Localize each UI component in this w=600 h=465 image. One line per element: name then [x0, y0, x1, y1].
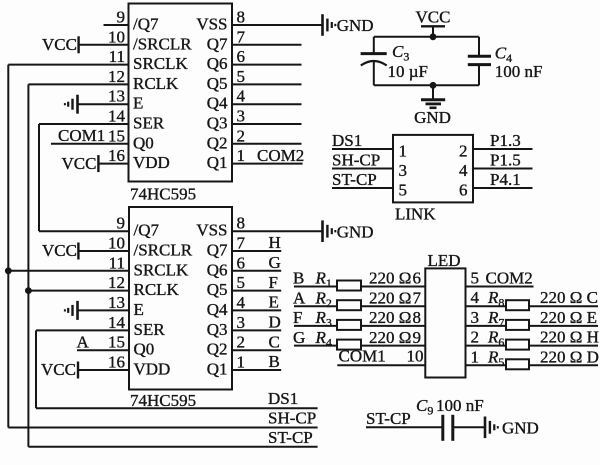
svg-text:16: 16 [108, 353, 125, 372]
svg-text:R5: R5 [487, 347, 504, 369]
U1 pin 4 Q4 wire [232, 103, 302, 105]
svg-text:Q5: Q5 [207, 280, 228, 299]
U2 pin 2 label Q2 [207, 340, 228, 359]
ground symbol GND (C9) [485, 417, 539, 439]
U1 pin 9 number [117, 8, 126, 27]
svg-text:COM2: COM2 [257, 146, 304, 165]
R2 value 220 ohm [369, 288, 411, 307]
svg-text:10: 10 [407, 346, 424, 365]
wire SH-CP vertical (U1.11/U2.11 to bottom) [7, 65, 9, 428]
U2 pin 4 Q4 wire [232, 309, 281, 311]
R4 value 220 ohm [369, 328, 411, 347]
U2 pin 4 number [237, 293, 246, 312]
ground symbol GND at U1 pin 8 VSS [323, 14, 374, 36]
U1 pin 4 label Q4 [207, 94, 228, 113]
svg-text:VCC: VCC [42, 241, 77, 260]
wire LED left pin 6 (B) [294, 286, 425, 288]
U2 pin 1 label Q1 [207, 360, 228, 379]
svg-text:GND: GND [502, 418, 539, 437]
svg-text:220 Ω: 220 Ω [369, 288, 411, 307]
LINK pin 1 wire (DS1) [332, 148, 393, 150]
LINK pin number 2 [459, 142, 468, 161]
U2 pin 16 number [108, 353, 125, 372]
ground symbol GND (earth, below caps) [414, 85, 451, 127]
LED part label [428, 251, 461, 270]
svg-text:1: 1 [237, 146, 246, 165]
U1 pin 11 number [109, 47, 125, 66]
svg-text:2: 2 [237, 126, 246, 145]
svg-text:2: 2 [459, 142, 468, 161]
LED pin number 4 [471, 288, 480, 307]
resistor R2 body [337, 300, 361, 310]
svg-text:1: 1 [237, 353, 246, 372]
svg-text:220 Ω C: 220 Ω C [540, 288, 598, 307]
svg-text:G: G [269, 253, 281, 272]
svg-text:4: 4 [459, 161, 468, 180]
svg-text:SER: SER [133, 114, 165, 133]
svg-text:11: 11 [109, 253, 125, 272]
wire LED left pin 7 (A) [294, 305, 425, 307]
svg-text:RCLK: RCLK [133, 74, 179, 93]
net label B [293, 269, 304, 288]
U1 pin 12 label RCLK [133, 74, 179, 93]
svg-text:74HC595: 74HC595 [130, 185, 196, 204]
net label F at U2 pin 5 [269, 273, 278, 292]
svg-text:Q0: Q0 [134, 340, 155, 359]
wire LED left pin 9 (G) [294, 345, 425, 347]
U1 pin 10 label /SRCLR [133, 34, 192, 53]
LINK pin 4 wire (P1.5) [473, 168, 533, 170]
wire LED left pin 8 (F) [294, 325, 425, 327]
U1 pin 13 label E [133, 94, 143, 113]
svg-text:12: 12 [108, 273, 125, 292]
U1 pin 8 number [237, 8, 246, 27]
IC U1 74HC595 body [129, 4, 233, 182]
svg-text:ST-CP: ST-CP [332, 170, 377, 189]
U1 pin 12 RCLK wire [28, 83, 128, 85]
svg-text:3: 3 [237, 107, 246, 126]
U2 pin 16 label VDD [134, 360, 171, 379]
power symbol VCC (top) [416, 8, 451, 37]
svg-text:100 nF: 100 nF [436, 396, 484, 415]
U2 pin 9 /Q7 wire [39, 230, 129, 232]
net label P1.3 [490, 131, 521, 150]
resistor R5 designator [487, 347, 504, 369]
net label COM2 (LED pin 5) [486, 269, 533, 288]
U2 VCC symbol at pin 16 [41, 360, 78, 379]
U1 pin 4 number [237, 87, 246, 106]
net label C at U2 pin 2 [269, 332, 280, 351]
junction at U2 pin 11 [5, 267, 12, 274]
U2 pin 12 RCLK wire [28, 290, 129, 292]
U2 pin 3 label Q3 [207, 320, 228, 339]
svg-text:VDD: VDD [134, 360, 171, 379]
svg-text:8: 8 [413, 308, 422, 327]
LINK pin number 5 [399, 181, 408, 200]
U1 pin 11 SRCLK wire [8, 64, 128, 66]
U2 pin 14 SER wire [36, 329, 129, 331]
svg-text:220 Ω H: 220 Ω H [540, 328, 599, 347]
svg-text:E: E [269, 293, 279, 312]
svg-text:Q7: Q7 [207, 34, 228, 53]
U2 pin 8 number [237, 214, 246, 233]
svg-text:Q1: Q1 [207, 360, 228, 379]
wire net DS1 (horizontal) [36, 407, 318, 409]
U1 pin 16 label VDD [133, 153, 170, 172]
U1 pin 1 label Q1 [207, 153, 228, 172]
svg-text:Q1: Q1 [207, 153, 228, 172]
wire ST-CP to C9 [366, 426, 442, 428]
svg-text:H: H [269, 233, 281, 252]
resistor R7 body [506, 320, 529, 330]
U1 pin 15 number [108, 126, 125, 145]
svg-text:VCC: VCC [62, 154, 97, 173]
svg-text:VCC: VCC [42, 35, 77, 54]
svg-text:P1.3: P1.3 [490, 131, 521, 150]
resistor R1 body [337, 281, 361, 291]
U1 pin 6 Q6 wire [232, 64, 302, 66]
svg-text:SRCLK: SRCLK [134, 260, 190, 279]
net label ST-CP [332, 170, 377, 189]
svg-text:A: A [77, 332, 90, 351]
net label P1.5 [490, 151, 521, 170]
wire LED pin 10 (COM1) [337, 364, 425, 366]
U2 part label 74HC595 [130, 391, 196, 410]
LED pin number 8 [413, 308, 422, 327]
svg-text:C: C [269, 332, 280, 351]
net label P4.1 [490, 170, 521, 189]
U2 pin 5 number [237, 273, 246, 292]
svg-text:Q6: Q6 [207, 54, 228, 73]
U1 pin 14 SER wire [39, 123, 129, 125]
svg-text:10 µF: 10 µF [388, 62, 429, 81]
svg-text:F: F [269, 273, 278, 292]
svg-text:DS1: DS1 [332, 131, 362, 150]
U1 pin 6 label Q6 [207, 54, 228, 73]
U1 pin 13 E wire [78, 103, 129, 105]
svg-text:1: 1 [471, 347, 480, 366]
net label COM2 at U1 pin 1 [257, 146, 304, 165]
net label E at U2 pin 4 [269, 293, 279, 312]
svg-text:B: B [269, 352, 280, 371]
svg-text:2: 2 [471, 328, 480, 347]
svg-text:10: 10 [108, 27, 125, 46]
U2 pin 13 label E [134, 300, 144, 319]
svg-text:R4: R4 [315, 328, 332, 350]
svg-text:COM1: COM1 [339, 346, 386, 365]
resistor R8 designator [487, 288, 504, 310]
svg-text:7: 7 [237, 234, 246, 253]
svg-text:220 Ω E: 220 Ω E [540, 308, 597, 327]
U1 pin 7 number [237, 27, 246, 46]
svg-text:C3: C3 [392, 42, 409, 64]
resistor R2 designator [315, 288, 332, 310]
svg-text:COM1: COM1 [58, 126, 105, 145]
net label H at U2 pin 7 [269, 233, 281, 252]
U1 pin 13 number [108, 87, 125, 106]
resistor R6 body [506, 340, 529, 350]
wire GND rail [374, 84, 479, 86]
U2 pin 10 number [108, 234, 125, 253]
U1 pin 3 number [237, 107, 246, 126]
svg-text:E: E [134, 300, 144, 319]
wire ST-CP vertical (U1.12/U2.12 to bottom) [27, 84, 29, 446]
svg-text:16: 16 [108, 146, 125, 165]
U2 pin 2 number [237, 333, 246, 352]
svg-text:Q4: Q4 [207, 300, 228, 319]
resistor R7 designator [487, 308, 504, 330]
net label SH-CP [332, 151, 380, 170]
U1 pin 2 number [237, 126, 246, 145]
LINK pin 5 wire (ST-CP) [332, 187, 393, 189]
U2 pin 7 label Q7 [207, 241, 228, 260]
svg-text:10: 10 [108, 234, 125, 253]
wire LED right pin 1 (D) [466, 364, 599, 366]
R6 value 220 ohm, net H [540, 328, 599, 347]
U2 pin 6 number [237, 253, 246, 272]
svg-text:220 Ω: 220 Ω [369, 269, 411, 288]
wire VCC rail [374, 36, 479, 38]
ground symbol at U2 pin 13 E [65, 301, 78, 320]
U2 pin 15 Q0 wire [77, 349, 129, 351]
LINK pin 2 wire (P1.3) [473, 148, 533, 150]
svg-text:/Q7: /Q7 [133, 15, 159, 34]
svg-text:4: 4 [237, 87, 246, 106]
U2 pin 7 Q7 wire [232, 250, 281, 252]
U1 pin 15 label Q0 [133, 133, 154, 152]
LINK pin 6 wire (P4.1) [473, 187, 533, 189]
U2 pin 11 SRCLK wire [8, 270, 129, 272]
net label A at U2 pin 15 [77, 332, 90, 351]
net label COM1 [339, 346, 386, 365]
wire U1 SER to U2 /Q7 vertical [38, 124, 40, 231]
U1 pin 14 number [108, 107, 126, 126]
wire C9 to ground [454, 426, 485, 428]
U2 pin 14 number [108, 313, 126, 332]
svg-text:Q2: Q2 [207, 340, 228, 359]
U1 pin 9 /Q7 wire [104, 24, 129, 26]
svg-text:P4.1: P4.1 [490, 170, 521, 189]
svg-text:Q2: Q2 [207, 133, 228, 152]
U2 pin 11 number [109, 253, 125, 272]
LINK pin number 3 [399, 161, 408, 180]
U1 pin 12 number [108, 67, 125, 86]
svg-text:LED: LED [428, 251, 461, 270]
svg-text:R3: R3 [315, 308, 332, 330]
svg-text:5: 5 [399, 181, 408, 200]
svg-text:/Q7: /Q7 [134, 221, 160, 240]
svg-text:220 Ω D: 220 Ω D [540, 347, 599, 366]
resistor R3 designator [315, 308, 332, 330]
wire LED pin 5 (COM2) [466, 286, 534, 288]
svg-text:4: 4 [471, 288, 480, 307]
svg-text:12: 12 [108, 67, 125, 86]
net label A [293, 288, 306, 307]
U2 pin 8 VSS wire [232, 230, 323, 232]
svg-text:8: 8 [237, 8, 246, 27]
svg-text:Q7: Q7 [207, 241, 228, 260]
net label B at U2 pin 1 [269, 352, 280, 371]
LED pin number 6 [413, 269, 422, 288]
net label D at U2 pin 3 [269, 313, 281, 332]
svg-text:VDD: VDD [133, 153, 170, 172]
net label ST-CP (C9 branch) [366, 409, 411, 428]
svg-text:COM2: COM2 [486, 269, 533, 288]
wire net ST-CP (horizontal) [28, 446, 317, 448]
junction VCC rail [430, 33, 437, 40]
svg-text:SH-CP: SH-CP [268, 409, 316, 428]
U2 pin 1 number [237, 353, 246, 372]
svg-text:9: 9 [413, 328, 422, 347]
svg-text:/SRCLR: /SRCLR [133, 34, 192, 53]
svg-text:B: B [293, 269, 304, 288]
svg-text:F: F [293, 308, 302, 327]
U2 pin 1 Q1 wire [232, 369, 281, 371]
svg-text:Q3: Q3 [207, 114, 228, 133]
net label ST-CP [268, 428, 313, 447]
U2 pin 13 number [108, 293, 125, 312]
svg-text:6: 6 [413, 269, 422, 288]
svg-text:VCC: VCC [416, 8, 451, 27]
resistor R4 designator [315, 328, 332, 350]
U2 pin 8 label VSS [196, 221, 227, 240]
LED pin number 2 [471, 328, 480, 347]
U1 pin 2 label Q2 [207, 133, 228, 152]
svg-text:6: 6 [459, 181, 468, 200]
svg-text:R1: R1 [315, 269, 332, 291]
LINK pin number 4 [459, 161, 468, 180]
C4 designator [495, 44, 512, 66]
R5 value 220 ohm, net D [540, 347, 599, 366]
svg-text:A: A [293, 288, 306, 307]
net label F [293, 308, 302, 327]
U2 pin 12 number [108, 273, 125, 292]
U1 pin 7 label Q7 [207, 34, 228, 53]
wire U2 SER to DS1 vertical [35, 330, 37, 408]
svg-text:3: 3 [471, 308, 480, 327]
IC U2 74HC595 body [129, 207, 232, 390]
svg-text:SRCLK: SRCLK [133, 54, 189, 73]
U2 pin 12 label RCLK [134, 280, 180, 299]
LINK part label [395, 205, 436, 224]
U1 pin 8 VSS wire [232, 24, 323, 26]
svg-text:1: 1 [399, 142, 408, 161]
net label COM1 at U1 pin 15 [58, 126, 105, 145]
U1 pin 2 Q2 wire [232, 143, 302, 145]
svg-text:RCLK: RCLK [134, 280, 180, 299]
svg-text:D: D [269, 313, 281, 332]
U2 pin 5 label Q5 [207, 280, 228, 299]
svg-text:7: 7 [413, 288, 422, 307]
capacitor C9 symbol [443, 415, 453, 441]
LED pin number 5 [471, 269, 480, 288]
ground symbol at U1 pin 13 E [65, 95, 78, 114]
C9 value 100 nF [436, 396, 484, 415]
wire LED right pin 4 (C) [466, 305, 599, 307]
U2 pin 9 label /Q7 [134, 221, 160, 240]
svg-text:74HC595: 74HC595 [130, 391, 196, 410]
svg-text:6: 6 [237, 47, 246, 66]
C9 designator [416, 396, 433, 418]
U2 pin 3 Q3 wire [232, 329, 281, 331]
capacitor C4 symbol [468, 37, 491, 86]
LED pin number 9 [413, 328, 422, 347]
connector LINK body [393, 135, 473, 203]
capacitor C3 symbol [361, 37, 387, 86]
U2 pin 2 Q2 wire [232, 349, 281, 351]
svg-text:220 Ω: 220 Ω [369, 308, 411, 327]
net label DS1 [268, 389, 298, 408]
svg-text:9: 9 [117, 214, 126, 233]
resistor R5 body [506, 359, 529, 369]
U1 pin 1 Q1 wire [232, 163, 303, 165]
U2 pin 9 number [117, 214, 126, 233]
U2 VCC symbol at pin 10 [42, 241, 78, 260]
U1 pin 5 label Q5 [207, 74, 228, 93]
svg-text:Q6: Q6 [207, 260, 228, 279]
U1 pin 16 number [108, 146, 125, 165]
svg-text:R6: R6 [487, 328, 504, 350]
U1 pin 5 Q5 wire [232, 83, 302, 85]
R3 value 220 ohm [369, 308, 411, 327]
wire net SH-CP (horizontal) [8, 427, 317, 429]
svg-text:R8: R8 [487, 288, 504, 310]
wire LED right pin 3 (E) [466, 325, 599, 327]
svg-text:11: 11 [109, 47, 125, 66]
svg-text:2: 2 [237, 333, 246, 352]
svg-text:Q5: Q5 [207, 74, 228, 93]
LED pin number 1 [471, 347, 480, 366]
svg-text:5: 5 [471, 269, 480, 288]
resistor R6 designator [487, 328, 504, 350]
svg-text:4: 4 [237, 293, 246, 312]
svg-text:SER: SER [134, 320, 166, 339]
U2 pin 15 label Q0 [134, 340, 155, 359]
svg-text:15: 15 [108, 126, 125, 145]
svg-text:GND: GND [337, 16, 374, 35]
U1 pin 5 number [237, 67, 246, 86]
U1 pin 10 /SRCLR wire [79, 44, 129, 46]
LINK pin number 1 [399, 142, 408, 161]
LED pin number 3 [471, 308, 480, 327]
U2 pin 16 VDD wire [78, 369, 129, 371]
U2 pin 4 label Q4 [207, 300, 228, 319]
U1 VCC symbol at pin 10 [42, 35, 79, 54]
svg-text:DS1: DS1 [268, 389, 298, 408]
svg-text:G: G [293, 328, 305, 347]
U1 pin 9 label /Q7 [133, 15, 159, 34]
LINK pin number 6 [459, 181, 468, 200]
svg-text:14: 14 [108, 313, 126, 332]
svg-text:15: 15 [108, 333, 125, 352]
svg-text:5: 5 [237, 67, 246, 86]
svg-text:100 nF: 100 nF [495, 62, 543, 81]
svg-text:GND: GND [337, 222, 374, 241]
U1 pin 10 number [108, 27, 125, 46]
U1 pin 6 number [237, 47, 246, 66]
svg-text:R2: R2 [315, 288, 332, 310]
U2 pin 10 label /SRCLR [134, 241, 193, 260]
U2 pin 14 label SER [134, 320, 166, 339]
U2 pin 15 number [108, 333, 125, 352]
U1 pin 8 label VSS [196, 15, 227, 34]
svg-text:Q3: Q3 [207, 320, 228, 339]
U1 pin 1 number [237, 146, 246, 165]
svg-text:6: 6 [237, 253, 246, 272]
resistor R8 body [506, 300, 529, 310]
svg-text:LINK: LINK [395, 205, 436, 224]
ground symbol GND at U2 pin 8 VSS [323, 220, 374, 242]
